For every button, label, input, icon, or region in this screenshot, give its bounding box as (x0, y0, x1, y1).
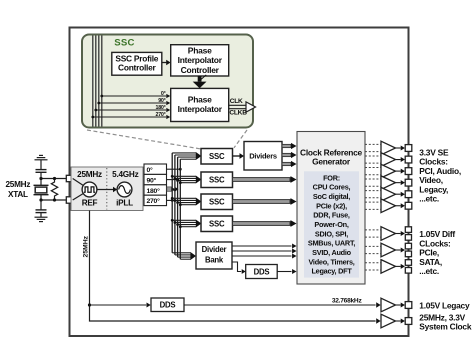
svg-text:SoC digital,: SoC digital, (313, 192, 350, 201)
block Phase Interpolator Controller (171, 45, 229, 76)
wire bus tap to SSC (175, 199, 196, 201)
svg-text:Power-On,: Power-On, (314, 220, 348, 229)
resistor R1 (51, 179, 57, 201)
svg-text:Bank: Bank (205, 256, 224, 265)
wire buffer to pad (396, 193, 401, 195)
ground bottom (35, 216, 48, 218)
wire REF 25MHz down (90, 211, 376, 322)
pad legacy clock (405, 302, 412, 309)
buffer SE output (381, 176, 396, 190)
svg-text:Generator: Generator (312, 157, 351, 167)
svg-text:SMBus, UART,: SMBus, UART, (308, 239, 355, 248)
wire bus elbow to Divider Bank (178, 256, 191, 258)
block SSC 3 (201, 194, 233, 210)
svg-text:SSC: SSC (209, 152, 225, 161)
SSC zoom inset box (82, 35, 253, 128)
wire phase input to Phase Interpolator (102, 95, 166, 97)
wire dashed clock pair to buffer (365, 167, 381, 169)
phase tap box 0&#176; (144, 164, 167, 174)
arrowhead bundle SSC1 (196, 152, 202, 160)
wire bus tap to SSC (172, 175, 196, 177)
pad XTAL_OUT (66, 197, 72, 203)
svg-text:SSC: SSC (114, 38, 134, 49)
buffer SE output (381, 141, 396, 155)
svg-text:25MHz: 25MHz (6, 180, 31, 189)
wire bus elbow to SSC1 (178, 156, 196, 158)
bus vertical wire (171, 153, 173, 253)
block Phase Interpolator (171, 88, 229, 121)
svg-text:Phase: Phase (188, 95, 212, 105)
pad diff N (405, 251, 411, 257)
bus vertical wire (174, 155, 176, 255)
wire bus elbow to SSC1 (180, 158, 196, 160)
pad SE clock (405, 145, 412, 152)
bus SSC to Clock Reference Generator (233, 222, 291, 226)
wire bus tap to SSC (178, 224, 196, 226)
bus SSC to Clock Reference Generator (233, 178, 291, 182)
svg-text:0°: 0° (147, 166, 154, 174)
wire dashed clock pair to buffer (365, 190, 381, 192)
wire bus tap to SSC (175, 177, 196, 179)
svg-text:DDS: DDS (254, 268, 270, 277)
block SSC 2 (201, 172, 233, 188)
wire DDS2 to legacy buffer (184, 304, 376, 306)
wire phase tap to bus (167, 189, 175, 191)
wire diff buffer to pads (396, 233, 401, 235)
svg-text:SSC: SSC (209, 176, 225, 185)
block SSC Profile Controller (112, 52, 162, 75)
bus SSC to Clock Reference Generator (233, 200, 291, 204)
buffer differential output (381, 260, 396, 274)
svg-text:Phase: Phase (188, 46, 212, 56)
arrowhead system clock (376, 318, 380, 323)
wire bus tap to SSC (172, 197, 196, 199)
svg-text:180°: 180° (147, 187, 161, 195)
wire dashed clock pair to buffer (365, 143, 381, 145)
wire buffer to pad (396, 147, 401, 149)
wire SSC1 to Dividers (233, 155, 240, 157)
phase tap box 180&#176; (144, 185, 167, 195)
wire bus tap to SSC (180, 226, 196, 228)
crystal Y1 (34, 184, 49, 186)
svg-text:0°: 0° (161, 91, 166, 97)
bus Dividers to Clock Reference Generator (282, 153, 291, 156)
wire DDS to Clock Reference Generator (277, 271, 291, 273)
wire phase input to Phase Interpolator (93, 116, 166, 118)
svg-text:Dividers: Dividers (249, 151, 277, 160)
svg-text:...etc.: ...etc. (419, 194, 439, 204)
wire phase feed vertical in inset (95, 36, 97, 127)
wire pad to REF top (73, 179, 84, 186)
wire phase feed vertical in inset (92, 36, 94, 127)
wire Divider Bank to Clock Reference Generator (232, 255, 292, 257)
svg-text:Video, Timers,: Video, Timers, (308, 257, 354, 266)
svg-text:25MHz: 25MHz (83, 235, 90, 257)
pad diff P (405, 260, 411, 266)
pad system clock (405, 318, 412, 325)
bus connector blob (167, 187, 172, 191)
wire system buffer to pad (396, 320, 401, 322)
svg-text:DDR, Fuse,: DDR, Fuse, (313, 211, 350, 220)
outer chip boundary box (70, 28, 409, 337)
svg-text:...etc.: ...etc. (419, 266, 439, 276)
buffer differential output (381, 227, 396, 241)
svg-text:270°: 270° (147, 197, 161, 205)
wire phase tap to bus (167, 199, 173, 201)
svg-text:Controller: Controller (118, 62, 157, 72)
block Clock Reference Generator (297, 132, 365, 285)
wire buffer to pad (396, 205, 401, 207)
ground top (39, 154, 43, 156)
divider dotted line (106, 168, 108, 210)
wire phase input to Phase Interpolator (99, 102, 166, 104)
wire buffer to pad (396, 182, 401, 184)
svg-text:Interpolator: Interpolator (178, 104, 223, 114)
svg-text:CLK: CLK (230, 98, 243, 105)
block Divider Bank (196, 242, 232, 269)
wire bus tap to SSC (178, 180, 196, 182)
pad diff N (405, 268, 411, 274)
wire legacy buffer to pad (396, 304, 401, 306)
capacitor C1 (36, 169, 47, 171)
wire dashed clock pair to buffer (365, 201, 381, 203)
wire phase feed vertical in inset (101, 36, 103, 127)
wire REF to iPLL (97, 189, 113, 191)
svg-text:System Clock: System Clock (419, 321, 472, 331)
wire CLKB output (229, 108, 248, 110)
buffer differential output (381, 243, 396, 257)
buffer 1.05V legacy (381, 298, 396, 312)
wire Divider Bank to Clock Reference Generator (232, 245, 292, 247)
buffer SE output (381, 187, 396, 201)
block SSC 4 (201, 216, 233, 232)
wire dashed clock pair to buffer (365, 155, 381, 157)
block Dividers (244, 142, 282, 171)
pad XTAL_IN (66, 175, 72, 181)
node junction dots (39, 177, 42, 180)
wire diff buffer to pads (396, 249, 401, 251)
wire bus tap to SSC (178, 202, 196, 204)
svg-text:SVID, Audio: SVID, Audio (312, 248, 352, 257)
svg-text:Interpolator: Interpolator (178, 55, 223, 65)
wire xtal top node (41, 178, 66, 180)
svg-text:REF: REF (82, 198, 98, 207)
svg-text:iPLL: iPLL (116, 198, 133, 207)
pad diff P (405, 243, 411, 249)
svg-text:180°: 180° (156, 105, 166, 111)
wire bus elbow to SSC1 (172, 152, 196, 154)
svg-text:90°: 90° (158, 98, 165, 104)
wire dashed clock pair to diff buffer (365, 245, 381, 247)
svg-text:270°: 270° (156, 112, 166, 118)
wire dashed clock pair to buffer (365, 178, 381, 180)
pad SE clock (405, 191, 412, 198)
bus vertical wire (179, 159, 181, 259)
wire bus tap to SSC (180, 182, 196, 184)
svg-text:Controller: Controller (181, 65, 220, 75)
wire phase feed vertical in inset (98, 36, 100, 127)
bus vertical wire (177, 157, 179, 257)
wire bus elbow to Divider Bank (172, 252, 190, 254)
oscillator iPLL symbol (117, 182, 132, 197)
svg-text:Divider: Divider (202, 245, 227, 254)
wire phase tap to bus (167, 168, 181, 170)
buffer SE output (381, 199, 396, 213)
wire bus elbow to Divider Bank (175, 254, 191, 256)
svg-text:CPU Cores,: CPU Cores, (313, 183, 351, 192)
svg-text:FOR:: FOR: (323, 173, 340, 182)
wire buffer to pad (396, 170, 401, 172)
pad diff N (405, 235, 411, 241)
wire bus elbow to Divider Bank (180, 258, 190, 260)
wire CLK output (229, 104, 248, 106)
buffer SE output (381, 164, 396, 178)
wire to DDS2 (90, 304, 147, 306)
wire diff buffer to pads (396, 265, 401, 267)
oscillator REF symbol (82, 182, 97, 197)
buffer SE output (381, 153, 396, 167)
pad SE clock (405, 168, 412, 175)
buffer system clock (381, 314, 396, 328)
svg-text:32.768kHz: 32.768kHz (332, 298, 363, 305)
wire xtal bottom node (41, 199, 66, 201)
arrowhead bundle SSC (196, 176, 202, 184)
svg-text:5.4GHz: 5.4GHz (112, 170, 138, 179)
bus Dividers to Clock Reference Generator (282, 144, 291, 147)
svg-text:90°: 90° (147, 176, 157, 184)
phase tap box 90&#176; (144, 174, 167, 184)
block DDS (246, 265, 278, 279)
block REF and iPLL (71, 167, 143, 211)
svg-text:CLKB: CLKB (229, 110, 247, 117)
svg-text:DDS: DDS (160, 301, 176, 310)
wire phase tap to bus (167, 179, 178, 181)
block SSC 1 (201, 149, 233, 165)
pad SE clock (405, 156, 412, 163)
wire SSC Profile Controller to Phase Interpolator Controller (162, 62, 167, 64)
wire bus tap to SSC (180, 204, 196, 206)
pad SE clock (405, 179, 412, 186)
wire Divider Bank to DDS (232, 262, 241, 272)
wire buffer to pad (396, 159, 401, 161)
pad SE clock (405, 202, 412, 209)
svg-text:1.05V Legacy: 1.05V Legacy (419, 301, 470, 311)
pad diff P (405, 227, 411, 233)
wire bus tap to SSC (172, 219, 196, 221)
wire Divider Bank to Clock Reference Generator (232, 250, 292, 252)
svg-text:SSC: SSC (209, 220, 225, 229)
capacitor C2 (36, 209, 47, 211)
wire dashed clock pair to diff buffer (365, 262, 381, 264)
inner FOR panel (304, 171, 359, 277)
wire bus elbow to SSC1 (175, 154, 196, 156)
bus Dividers to Clock Reference Generator (282, 162, 291, 165)
arrowhead bundle SSC (196, 198, 202, 206)
node junction (88, 303, 91, 306)
callout dashed line left (87, 130, 200, 149)
wire bus tap to SSC (175, 221, 196, 223)
callout dashed line right (234, 130, 247, 148)
arrowhead bundle SSC (196, 220, 202, 228)
wire dashed clock pair to diff buffer (365, 229, 381, 231)
wire phase input to Phase Interpolator (96, 109, 166, 111)
svg-text:PCIe (x2),: PCIe (x2), (316, 201, 347, 210)
svg-text:SSC: SSC (209, 198, 225, 207)
block DDS 2 (151, 298, 184, 312)
svg-text:25MHz: 25MHz (77, 170, 102, 179)
phase tap box 270&#176; (144, 195, 167, 205)
bus arrow controller to interpolator (198, 76, 202, 82)
svg-text:XTAL: XTAL (8, 190, 28, 199)
arrowhead bundle Divider Bank (190, 252, 196, 260)
wire pad to REF bottom (73, 193, 84, 200)
svg-text:SDIO, SPI,: SDIO, SPI, (315, 229, 348, 238)
svg-text:Legacy, DFT: Legacy, DFT (311, 267, 352, 276)
arrowhead CLK pair (246, 102, 256, 112)
